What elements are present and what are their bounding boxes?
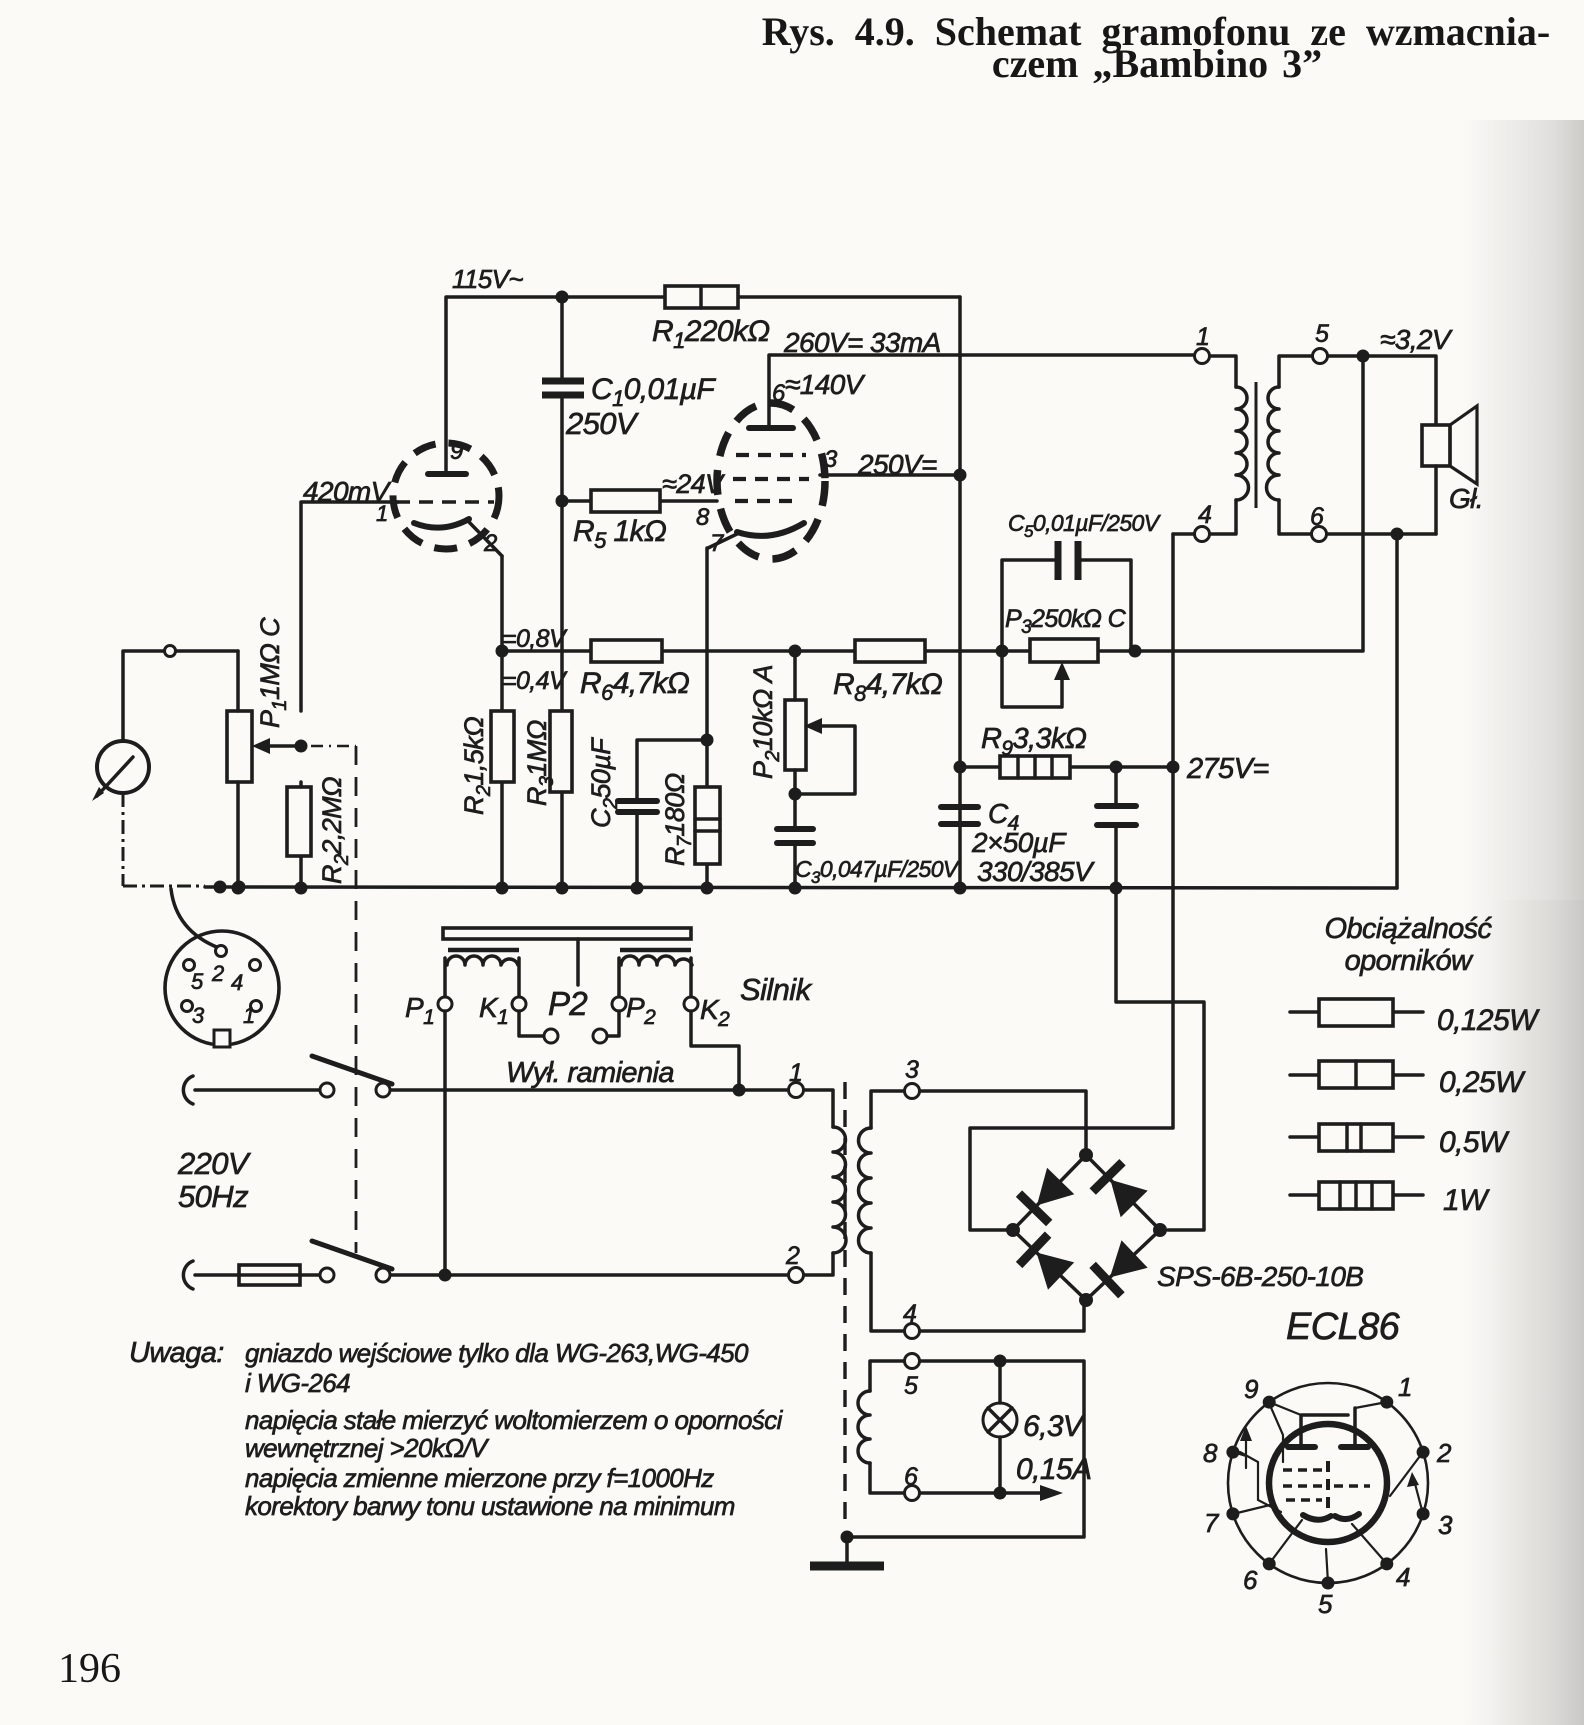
svg-text:2: 2: [211, 961, 224, 986]
svg-text:4: 4: [903, 1300, 916, 1328]
pentode V1b envelope: [717, 403, 825, 559]
svg-text:Obciążalność: Obciążalność: [1325, 913, 1493, 945]
svg-text:wewnętrznej >20kΩ/V: wewnętrznej >20kΩ/V: [245, 1433, 490, 1463]
ECL86 cathodes: [1303, 1514, 1359, 1543]
svg-text:SPS-6B-250-10B: SPS-6B-250-10B: [1157, 1261, 1363, 1292]
potentiometer P3 250k body: [1030, 639, 1098, 662]
svg-text:3: 3: [905, 1056, 919, 1084]
wire HV to bridge AC: [920, 1091, 1086, 1331]
wire anode row R8 P3 feedback: [795, 350, 1370, 658]
svg-text:=0,8V: =0,8V: [502, 625, 568, 653]
title caption: [762, 9, 1550, 86]
P2 wiper arrow: [795, 718, 855, 794]
wire C1 rail x562: [556, 291, 569, 895]
speaker Gl: [1422, 406, 1477, 534]
svg-text:gniazdo wejściowe tylko dla WG: gniazdo wejściowe tylko dla WG-263,WG-45…: [245, 1338, 749, 1368]
svg-text:1: 1: [243, 1003, 255, 1028]
svg-text:5: 5: [1315, 320, 1329, 348]
OT pin labels: [1196, 320, 1329, 531]
resistor R2 1.5k: [491, 711, 514, 782]
motor terminals: [438, 997, 698, 1043]
potentiometer P1 1M body: [227, 651, 252, 895]
label C4 value: [971, 798, 1095, 887]
legend resistor 0.25W: [1290, 1061, 1423, 1088]
legend power labels: [1437, 1004, 1540, 1217]
svg-text:1W: 1W: [1443, 1184, 1490, 1217]
motor core bar: [443, 928, 691, 985]
svg-text:R93,3kΩ: R93,3kΩ: [981, 723, 1087, 760]
svg-text:7: 7: [1204, 1508, 1220, 1538]
wire R5 grid2: [562, 499, 717, 503]
svg-text:1: 1: [1196, 323, 1209, 351]
wire motor feeds: [445, 1011, 739, 1275]
potentiometer P2 10k body: [785, 651, 806, 827]
motor winding P2-K2: [619, 956, 692, 997]
svg-text:196: 196: [58, 1646, 121, 1692]
legend resistor 0.125W: [1290, 999, 1423, 1026]
svg-text:R5 1kΩ: R5 1kΩ: [573, 515, 666, 553]
svg-text:5: 5: [1318, 1589, 1333, 1619]
triode cathode: [414, 519, 502, 556]
svg-text:napięcia zmienne mierzone przy: napięcia zmienne mierzone przy f=1000Hz: [245, 1463, 714, 1493]
svg-text:6: 6: [1310, 503, 1324, 531]
svg-text:1: 1: [1398, 1372, 1412, 1402]
svg-text:2: 2: [483, 530, 497, 557]
svg-text:≈3,2V: ≈3,2V: [1380, 324, 1453, 355]
svg-text:9: 9: [1244, 1374, 1258, 1404]
mains plug top: [183, 1076, 193, 1104]
svg-text:3: 3: [1438, 1510, 1453, 1540]
svg-text:2×50µF: 2×50µF: [971, 827, 1067, 858]
power transformer T1 primary: [789, 1083, 847, 1283]
svg-text:2: 2: [785, 1242, 800, 1270]
resistor R7 180: [695, 787, 720, 864]
svg-text:1: 1: [789, 1059, 802, 1087]
svg-text:9: 9: [450, 438, 463, 465]
label lamp values: [1016, 1410, 1091, 1486]
ECL86 socket outer: [1228, 1383, 1428, 1583]
svg-text:220V: 220V: [177, 1146, 252, 1181]
wire 275V rail to bridge minus: [970, 534, 1173, 1230]
wire cathode x707 R7: [701, 548, 714, 895]
T1 pin labels: [785, 1056, 919, 1491]
wire DIN shield curve: [171, 889, 219, 948]
svg-text:1: 1: [376, 501, 388, 526]
notes Uwaga: [129, 1337, 784, 1521]
wire OT row pin4 pin6 speaker: [1173, 500, 1436, 888]
T1 HV secondary: [859, 1084, 920, 1339]
capacitor C1 0.01uF: [542, 381, 584, 395]
svg-text:0,25W: 0,25W: [1439, 1066, 1526, 1099]
diode D3: [1019, 1235, 1074, 1290]
legend resistor 0.5W: [1290, 1124, 1423, 1151]
switch S1a: [312, 1056, 392, 1097]
wire 3.2V speaker feed: [1328, 356, 1436, 425]
resistor R4 2.2M: [287, 782, 311, 856]
wire 115V plate rail: [446, 297, 960, 474]
resistor R5 1k: [591, 490, 660, 512]
svg-text:R1220kΩ: R1220kΩ: [652, 315, 770, 353]
svg-text:115V~: 115V~: [452, 264, 523, 294]
svg-text:4: 4: [1198, 501, 1211, 529]
label 220V 50Hz: [177, 1146, 252, 1214]
svg-text:4: 4: [231, 970, 243, 995]
resistor R9 3.3k: [1000, 756, 1070, 778]
transformer core dashed: [843, 1082, 846, 1528]
triode anode plate: [428, 471, 466, 477]
ECL86 internal plates: [1288, 1408, 1368, 1447]
capacitor C4a 50uF: [941, 807, 978, 824]
svg-text:≈140V: ≈140V: [785, 369, 866, 400]
svg-text:5: 5: [904, 1372, 918, 1400]
diode D1: [1019, 1168, 1074, 1223]
svg-text:oporników: oporników: [1345, 945, 1474, 977]
triode V1a envelope: [393, 443, 499, 549]
svg-text:250V: 250V: [565, 406, 640, 441]
svg-text:0,15A: 0,15A: [1016, 1453, 1091, 1486]
ECL86 pin numbers: [1203, 1372, 1453, 1619]
svg-text:P2: P2: [548, 985, 587, 1022]
capacitor C3 0.047uF: [777, 829, 813, 895]
svg-text:0,5W: 0,5W: [1439, 1126, 1510, 1159]
wire heater loop: [841, 1355, 1085, 1544]
legend resistor 1W: [1290, 1182, 1423, 1209]
svg-text:2: 2: [1436, 1438, 1452, 1468]
resistor R1 220k: [665, 286, 738, 308]
svg-text:50Hz: 50Hz: [178, 1179, 249, 1214]
svg-text:R84,7kΩ: R84,7kΩ: [833, 668, 942, 706]
svg-text:R64,7kΩ: R64,7kΩ: [580, 667, 689, 705]
svg-text:6: 6: [904, 1463, 918, 1491]
svg-text:Uwaga:: Uwaga:: [129, 1337, 224, 1369]
svg-text:Wył. ramienia: Wył. ramienia: [506, 1057, 674, 1089]
capacitor C5 0.01uF loop: [1002, 541, 1131, 651]
legend title: [1325, 913, 1493, 977]
ECL86 pin wires: [1233, 1402, 1423, 1583]
ground symbol: [810, 1537, 884, 1566]
fuse F1: [239, 1265, 300, 1285]
switch S1b: [312, 1241, 392, 1282]
diode D4: [1093, 1240, 1148, 1295]
svg-text:275V=: 275V=: [1186, 753, 1269, 785]
wire mains top: [195, 1084, 788, 1097]
pickup cartridge: [92, 741, 149, 801]
capacitor C2 50uF: [618, 801, 657, 812]
svg-text:3: 3: [192, 1003, 205, 1028]
svg-text:8: 8: [1203, 1438, 1218, 1468]
T1 heater winding: [858, 1354, 920, 1501]
lamp 6.3V: [983, 1361, 1017, 1493]
resistor R3 1M: [550, 711, 572, 792]
svg-text:8: 8: [696, 504, 710, 531]
pentode cathode: [708, 523, 804, 548]
diode D2: [1093, 1162, 1148, 1217]
wire pickup to P1: [123, 646, 238, 742]
svg-text:6,3V: 6,3V: [1023, 1410, 1086, 1443]
wire C2 branch: [631, 740, 708, 895]
wire pickup ground: [123, 793, 205, 886]
svg-text:napięcia stałe mierzyć woltomi: napięcia stałe mierzyć woltomierzem o op…: [245, 1405, 784, 1435]
wire pentode anode to OT pin1: [769, 297, 1195, 895]
ECL86 internal grids: [1283, 1461, 1370, 1512]
svg-text:=0,4V: =0,4V: [502, 667, 568, 695]
capacitor C4b 50uF branch to bridge plus: [1097, 767, 1204, 1230]
svg-text:6: 6: [772, 380, 786, 407]
wire pentode plate pin3 250V: [820, 473, 960, 477]
svg-text:Silnik: Silnik: [740, 972, 813, 1007]
P3 wiper arrow: [1002, 651, 1070, 707]
DIN pin labels: [191, 961, 255, 1028]
output transformer T2: [1195, 349, 1328, 542]
mechanical link P1 switch: [311, 746, 356, 1253]
wire grid 420mV: [295, 502, 399, 895]
wire R6 row: [502, 645, 802, 658]
svg-text:5: 5: [191, 969, 204, 994]
wire mains bottom: [195, 1269, 788, 1282]
triode grid dashes: [396, 500, 494, 504]
svg-text:czem „Bambino 3”: czem „Bambino 3”: [992, 41, 1322, 86]
svg-text:i WG-264: i WG-264: [245, 1368, 350, 1398]
svg-text:ECL86: ECL86: [1286, 1306, 1401, 1348]
bridge rectifier SPS-6B-250-10B: [1006, 1148, 1167, 1307]
P1 wiper arrow: [252, 738, 301, 754]
svg-text:korektory barwy tonu ustawione: korektory barwy tonu ustawione na minimu…: [245, 1491, 735, 1521]
resistor R8 4.7k: [855, 640, 925, 662]
pentode grid dashes: [733, 455, 809, 501]
svg-text:≈24V: ≈24V: [662, 469, 726, 499]
svg-text:3: 3: [824, 446, 838, 473]
svg-text:0,125W: 0,125W: [1437, 1004, 1540, 1037]
mains plug bottom: [183, 1261, 193, 1289]
wire heater pin6 arrow: [920, 1485, 1063, 1501]
svg-text:260V= 33mA: 260V= 33mA: [783, 327, 941, 358]
motor winding P1-K1: [445, 956, 519, 997]
pentode anode plate: [749, 425, 793, 431]
ECL86 pins: [1226, 1396, 1429, 1590]
svg-text:Gł.: Gł.: [1449, 483, 1483, 514]
resistor R6 4.7k: [591, 640, 662, 662]
wire R9 row 275V: [960, 761, 1180, 774]
svg-text:6: 6: [1243, 1565, 1258, 1595]
ground bus: [205, 881, 1397, 894]
wire tonearm switch contacts: [519, 1011, 619, 1036]
svg-text:330/385V: 330/385V: [977, 856, 1095, 887]
motor terminal labels: [405, 985, 730, 1031]
wire triode cathode x502: [496, 556, 509, 895]
svg-text:4: 4: [1396, 1562, 1410, 1592]
DIN socket: [165, 931, 279, 1047]
svg-text:250V=: 250V=: [857, 449, 937, 480]
